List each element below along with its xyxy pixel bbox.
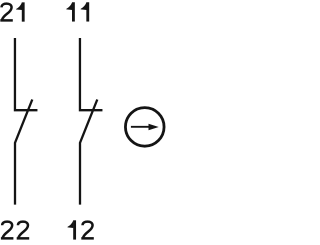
actuator symbol circle bbox=[125, 108, 164, 147]
terminal label 21 bbox=[0, 2, 23, 21]
NC contact 21-22 moving contact diagonal and lower wire bbox=[15, 100, 32, 205]
terminal label 22 bbox=[1, 222, 29, 239]
NC contact 11-12 moving contact diagonal and lower wire bbox=[80, 100, 97, 205]
actuator arrow head bbox=[149, 124, 159, 131]
NC contact 21-22 fixed side: upper wire and contact seat bar bbox=[15, 38, 38, 110]
actuator arrow shaft bbox=[131, 126, 150, 128]
NC contact 11-12 fixed side: upper wire and contact seat bar bbox=[80, 38, 103, 110]
terminal label 12 bbox=[68, 220, 94, 239]
terminal label 11 bbox=[66, 2, 87, 21]
